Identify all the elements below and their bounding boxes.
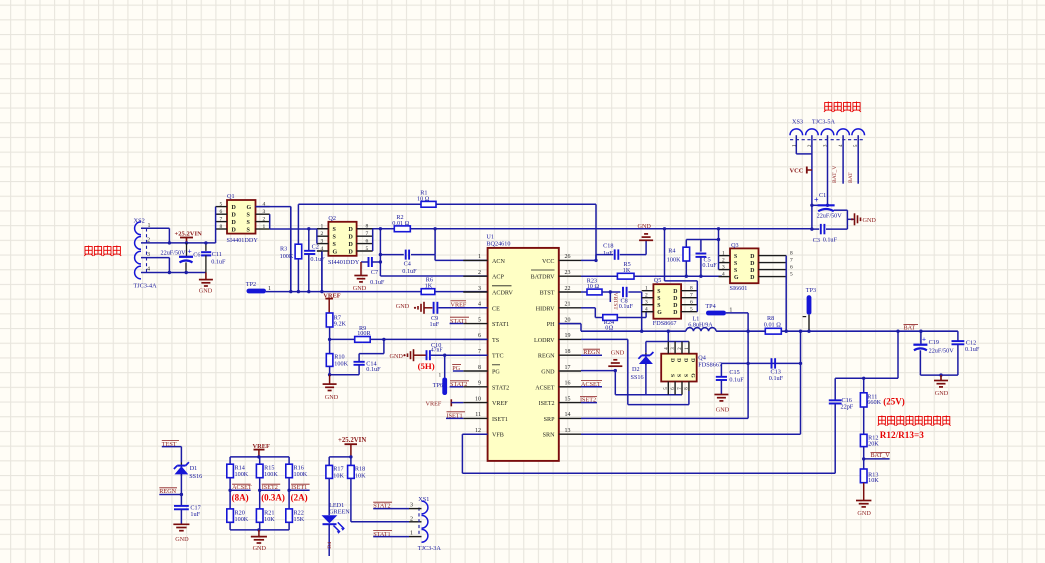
svg-text:(0.3A): (0.3A) [261, 493, 285, 503]
svg-text:C7: C7 [371, 269, 378, 276]
svg-text:VREF: VREF [492, 401, 508, 407]
svg-text:ISET1: ISET1 [492, 417, 508, 423]
svg-text:STAT1: STAT1 [492, 322, 509, 328]
svg-text:TJC3-3A: TJC3-3A [418, 545, 442, 552]
svg-text:3: 3 [478, 286, 481, 292]
svg-text:D: D [750, 254, 754, 260]
svg-text:10: 10 [587, 283, 593, 290]
svg-text:CE: CE [492, 306, 500, 312]
svg-text:C1: C1 [819, 192, 826, 199]
svg-text:D: D [669, 358, 675, 362]
svg-text:0.1uF: 0.1uF [619, 303, 634, 310]
svg-text:4: 4 [645, 307, 648, 313]
svg-text:3: 3 [263, 209, 266, 215]
svg-text:100K: 100K [264, 471, 278, 478]
svg-text:GND: GND [935, 390, 949, 397]
svg-text:R4: R4 [668, 247, 675, 254]
svg-text:Q1: Q1 [227, 193, 235, 200]
svg-text:SI4401DDY: SI4401DDY [227, 237, 259, 244]
svg-text:ACDRV: ACDRV [492, 291, 513, 297]
svg-text:G: G [690, 373, 696, 378]
svg-text:SRP: SRP [544, 417, 555, 423]
svg-text:14: 14 [565, 412, 571, 418]
svg-text:0.1uF: 0.1uF [823, 236, 838, 243]
svg-text:ACP: ACP [492, 275, 504, 281]
svg-text:GND: GND [541, 370, 555, 376]
svg-text:0.1uF: 0.1uF [402, 268, 417, 275]
svg-text:REGN: REGN [538, 354, 555, 360]
svg-text:S: S [669, 374, 675, 377]
svg-text:GND: GND [716, 406, 730, 413]
svg-text:D: D [750, 275, 754, 281]
svg-text:9: 9 [478, 381, 481, 387]
svg-text:1: 1 [645, 286, 648, 292]
svg-text:FDS8667: FDS8667 [653, 320, 677, 327]
svg-text:0.1uF: 0.1uF [965, 346, 980, 353]
svg-text:22pF: 22pF [841, 404, 854, 411]
svg-text:TS: TS [492, 338, 500, 344]
svg-text:C15: C15 [729, 369, 739, 376]
svg-text:2: 2 [263, 216, 266, 222]
svg-text:VCC: VCC [542, 259, 555, 265]
svg-text:S: S [734, 261, 737, 267]
svg-text:+25.2VIN: +25.2VIN [338, 437, 366, 444]
svg-text:ACSET: ACSET [535, 385, 555, 391]
svg-text:5: 5 [366, 246, 369, 252]
svg-text:XS2: XS2 [134, 218, 145, 225]
svg-text:ACN: ACN [492, 259, 505, 265]
svg-text:D: D [232, 227, 237, 233]
svg-text:TP4: TP4 [705, 303, 715, 310]
svg-text:SI6601: SI6601 [730, 285, 748, 292]
svg-text:D: D [349, 242, 354, 248]
svg-text:1: 1 [321, 224, 324, 230]
svg-text:4: 4 [478, 302, 481, 308]
svg-text:3: 3 [722, 264, 725, 270]
svg-text:Q2: Q2 [328, 215, 336, 222]
svg-text:GND: GND [325, 394, 339, 401]
svg-text:10: 10 [417, 195, 423, 202]
svg-text:S: S [657, 303, 660, 309]
svg-text:8: 8 [690, 286, 693, 292]
svg-text:G: G [657, 310, 662, 316]
svg-text:TTC: TTC [492, 354, 504, 360]
svg-text:3: 3 [321, 238, 324, 244]
svg-text:100R: 100R [357, 330, 371, 337]
svg-text:FDS8667: FDS8667 [698, 361, 722, 368]
svg-text:GND: GND [390, 353, 404, 360]
svg-text:0.1uF: 0.1uF [370, 279, 385, 286]
svg-text:(2A): (2A) [291, 493, 308, 503]
svg-text:S: S [676, 374, 682, 377]
svg-text:STAT2: STAT2 [492, 385, 509, 391]
svg-text:BQ24610: BQ24610 [486, 240, 510, 247]
svg-text:C18: C18 [603, 242, 613, 249]
svg-text:1: 1 [478, 254, 481, 260]
svg-text:ISET2: ISET2 [262, 484, 278, 491]
svg-text:+25.2VIN: +25.2VIN [175, 231, 203, 238]
svg-text:GND: GND [353, 285, 367, 292]
svg-text:D: D [676, 358, 682, 362]
svg-text:GND: GND [638, 223, 652, 230]
svg-text:100K: 100K [235, 471, 249, 478]
svg-text:2: 2 [410, 517, 413, 523]
svg-text:0.01: 0.01 [392, 220, 403, 227]
svg-text:TP3: TP3 [806, 287, 816, 294]
svg-text:2: 2 [722, 257, 725, 263]
svg-text:D: D [750, 261, 754, 267]
svg-text:D: D [673, 289, 677, 295]
svg-text:PG: PG [492, 370, 500, 376]
svg-text:Ω: Ω [776, 321, 781, 328]
svg-text:G: G [734, 275, 739, 281]
svg-text:GND: GND [199, 288, 213, 295]
svg-text:C19: C19 [929, 339, 939, 346]
svg-text:1uF: 1uF [430, 321, 440, 328]
svg-text:0.1uF: 0.1uF [310, 256, 325, 263]
svg-text:R12/R13=3: R12/R13=3 [880, 430, 924, 440]
svg-text:SRN: SRN [543, 433, 555, 439]
svg-text:D: D [683, 358, 689, 362]
svg-text:+: + [922, 335, 926, 344]
svg-text:9.2K: 9.2K [334, 320, 347, 327]
svg-text:BATDRV: BATDRV [531, 275, 555, 281]
svg-text:3: 3 [410, 502, 413, 508]
svg-text:100K: 100K [334, 360, 348, 367]
svg-text:TJC3-4A: TJC3-4A [134, 283, 158, 290]
svg-text:0.1uF: 0.1uF [769, 375, 784, 382]
svg-text:5: 5 [690, 307, 693, 313]
svg-text:TP2: TP2 [246, 281, 256, 288]
svg-text:7: 7 [220, 216, 223, 222]
svg-text:ISET1: ISET1 [291, 484, 307, 491]
svg-text:D: D [750, 268, 754, 274]
svg-text:D: D [673, 296, 677, 302]
svg-text:18: 18 [565, 349, 571, 355]
svg-text:1: 1 [439, 372, 442, 378]
svg-text:2: 2 [478, 270, 481, 276]
svg-text:ACSET: ACSET [232, 484, 252, 491]
svg-text:7: 7 [366, 231, 369, 237]
svg-text:GND: GND [857, 510, 871, 517]
svg-text:HIDRV: HIDRV [536, 306, 555, 312]
svg-text:GREEN: GREEN [329, 509, 350, 516]
svg-text:TJC3-5A: TJC3-5A [812, 119, 836, 126]
svg-text:S: S [683, 374, 689, 377]
svg-text:2: 2 [645, 293, 648, 299]
svg-text:GND: GND [396, 303, 410, 310]
svg-text:21: 21 [565, 302, 571, 308]
svg-text:17: 17 [565, 365, 571, 371]
svg-text:100K: 100K [235, 516, 249, 523]
svg-text:D: D [232, 205, 237, 211]
svg-text:22uF/50V: 22uF/50V [161, 249, 187, 256]
svg-text:7: 7 [690, 293, 693, 299]
svg-text:D: D [673, 310, 677, 316]
svg-text:VREF: VREF [426, 400, 442, 407]
svg-text:GND: GND [175, 536, 189, 543]
svg-text:47nF: 47nF [431, 348, 444, 354]
svg-text:Q5: Q5 [654, 277, 662, 284]
svg-text:(5H): (5H) [418, 361, 435, 371]
svg-text:BAT: BAT [904, 324, 916, 331]
svg-text:6: 6 [478, 333, 481, 339]
svg-text:10K: 10K [355, 472, 366, 479]
svg-text:C6: C6 [193, 252, 200, 259]
svg-text:D: D [673, 303, 677, 309]
svg-text:10: 10 [475, 396, 481, 402]
svg-text:+: + [188, 247, 192, 256]
svg-text:1: 1 [722, 250, 725, 256]
svg-text:19: 19 [565, 333, 571, 339]
svg-text:C4: C4 [404, 261, 411, 268]
svg-text:22uF/50V: 22uF/50V [929, 347, 955, 354]
svg-text:D4: D4 [327, 542, 333, 549]
svg-text:6: 6 [690, 300, 693, 306]
svg-text:7: 7 [790, 257, 793, 263]
svg-text:(8A): (8A) [232, 493, 249, 503]
svg-text:D1: D1 [190, 465, 198, 472]
svg-text:100K: 100K [280, 253, 294, 260]
svg-text:13: 13 [565, 428, 571, 434]
svg-text:0.1uF: 0.1uF [211, 259, 226, 266]
svg-text:VBTST: VBTST [612, 293, 618, 311]
svg-text:BAT_V: BAT_V [832, 166, 838, 183]
svg-text:C11: C11 [212, 251, 222, 258]
svg-text:1: 1 [263, 224, 266, 230]
svg-text:BTST: BTST [540, 291, 555, 297]
svg-text:10K: 10K [333, 472, 344, 479]
svg-text:26: 26 [565, 254, 571, 260]
svg-text:D2: D2 [632, 366, 640, 373]
svg-text:S: S [657, 289, 660, 295]
svg-text:Ω: Ω [595, 283, 600, 290]
svg-text:15: 15 [565, 396, 571, 402]
svg-text:1: 1 [410, 531, 413, 537]
svg-text:7: 7 [478, 349, 481, 355]
svg-text:C2: C2 [312, 243, 319, 250]
svg-text:G: G [333, 249, 338, 255]
svg-text:11: 11 [475, 412, 481, 418]
svg-text:22uF/50V: 22uF/50V [817, 213, 843, 220]
svg-text:GND: GND [863, 217, 877, 224]
svg-text:3: 3 [645, 300, 648, 306]
svg-text:1uF: 1uF [603, 250, 613, 257]
svg-text:0.01: 0.01 [764, 321, 775, 328]
svg-text:C3: C3 [813, 237, 820, 244]
svg-text:20K: 20K [868, 440, 879, 447]
svg-text:8: 8 [366, 224, 369, 230]
svg-text:5: 5 [790, 271, 793, 277]
svg-text:Q3: Q3 [731, 242, 739, 249]
svg-text:XS3: XS3 [792, 119, 803, 126]
svg-text:10K: 10K [264, 516, 275, 523]
svg-text:VFB: VFB [492, 433, 504, 439]
svg-text:100K: 100K [294, 471, 308, 478]
svg-text:0.1uF: 0.1uF [366, 366, 381, 373]
svg-text:4: 4 [722, 271, 725, 277]
svg-text:22: 22 [565, 286, 571, 292]
svg-text:1K: 1K [623, 267, 631, 274]
svg-text:8: 8 [220, 224, 223, 230]
svg-text:6: 6 [366, 238, 369, 244]
svg-text:TP6: TP6 [433, 382, 443, 389]
svg-text:VCC: VCC [790, 168, 804, 175]
svg-text:S: S [734, 254, 737, 260]
svg-text:0.1uF: 0.1uF [729, 376, 744, 383]
svg-text:G: G [247, 205, 252, 211]
svg-text:LODRV: LODRV [534, 338, 555, 344]
svg-text:D: D [232, 220, 237, 226]
svg-text:S: S [657, 296, 660, 302]
svg-text:GND: GND [611, 349, 625, 356]
svg-text:PH: PH [547, 322, 555, 328]
svg-text:100K: 100K [667, 256, 681, 263]
svg-text:0.1uF: 0.1uF [702, 262, 717, 269]
svg-text:12: 12 [475, 428, 481, 434]
svg-text:16: 16 [565, 381, 571, 387]
svg-text:660K: 660K [867, 399, 881, 406]
svg-text:D: D [232, 213, 237, 219]
svg-text:(25V): (25V) [883, 396, 905, 406]
svg-text:GND: GND [253, 545, 267, 552]
svg-text:SS16: SS16 [631, 374, 644, 381]
svg-text:D: D [349, 249, 354, 255]
svg-text:Ω: Ω [425, 195, 430, 202]
svg-text:R3: R3 [280, 245, 287, 252]
svg-text:2: 2 [321, 231, 324, 237]
svg-text:8: 8 [478, 365, 481, 371]
svg-text:D: D [349, 235, 354, 241]
svg-text:1K: 1K [425, 282, 433, 289]
svg-text:D: D [690, 358, 696, 362]
svg-text:SI4401DDY: SI4401DDY [328, 259, 360, 266]
svg-text:Ω: Ω [405, 220, 410, 227]
svg-text:1uF: 1uF [190, 511, 200, 518]
svg-text:BAT: BAT [848, 172, 854, 183]
svg-text:SS16: SS16 [189, 473, 202, 480]
svg-text:10K: 10K [868, 477, 879, 484]
svg-text:6: 6 [220, 209, 223, 215]
svg-text:D: D [349, 227, 354, 233]
svg-text:15K: 15K [294, 516, 305, 523]
svg-text:20: 20 [565, 317, 571, 323]
svg-text:ISET2: ISET2 [539, 401, 555, 407]
svg-text:5: 5 [478, 317, 481, 323]
svg-text:Q4: Q4 [698, 354, 706, 361]
svg-text:5: 5 [220, 201, 223, 207]
svg-text:23: 23 [565, 270, 571, 276]
svg-text:6: 6 [790, 264, 793, 270]
svg-text:8: 8 [790, 250, 793, 256]
svg-text:S: S [734, 268, 737, 274]
